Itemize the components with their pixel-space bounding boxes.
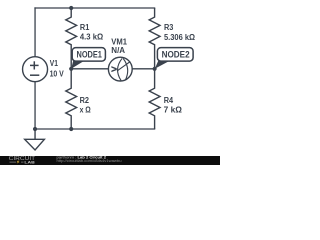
footer bar: [0, 156, 220, 165]
wire voltmeter to node2: [132, 68, 155, 70]
junction dot node2: [153, 67, 157, 71]
svg-text:R1: R1: [80, 23, 90, 32]
junction dot top R1: [69, 6, 73, 10]
svg-text:LAB: LAB: [24, 159, 35, 164]
svg-text:R4: R4: [164, 96, 174, 105]
wire top: [35, 7, 155, 9]
resistor R3: [149, 8, 160, 69]
resistor R4: [149, 69, 160, 129]
node label NODE2: [155, 48, 193, 69]
svg-text:NODE1: NODE1: [77, 49, 102, 60]
wire bottom: [35, 128, 155, 130]
wire node1 to voltmeter: [71, 68, 108, 70]
svg-text:7 kΩ: 7 kΩ: [164, 106, 183, 115]
svg-text:N/A: N/A: [111, 46, 125, 55]
svg-text:R3: R3: [164, 23, 174, 32]
svg-text:VM1: VM1: [111, 37, 127, 46]
svg-text:http://circuitlab.com/c8ds4v1w: http://circuitlab.com/c8ds4v1wawbu: [57, 159, 122, 163]
svg-text:4.3 kΩ: 4.3 kΩ: [80, 33, 104, 42]
junction dot bottom left: [33, 127, 37, 131]
ground: [25, 129, 45, 150]
voltage source V1: [23, 57, 48, 82]
resistor R2: [66, 69, 77, 129]
junction dot bottom R2: [69, 127, 73, 131]
svg-text:V1: V1: [50, 59, 59, 68]
svg-text:R2: R2: [80, 96, 90, 105]
svg-text:>: >: [111, 65, 117, 76]
svg-text:10 V: 10 V: [50, 69, 65, 78]
voltmeter VM1: [108, 57, 132, 81]
junction dot node1: [69, 67, 73, 71]
resistor R1: [66, 8, 77, 69]
footer logo LAB: [10, 161, 24, 163]
svg-text:x Ω: x Ω: [80, 106, 92, 115]
node label NODE1: [71, 48, 105, 69]
wire left lower: [34, 81, 36, 129]
wire left upper: [34, 8, 36, 57]
svg-text:5.306 kΩ: 5.306 kΩ: [164, 33, 196, 42]
svg-text:NODE2: NODE2: [162, 49, 190, 60]
